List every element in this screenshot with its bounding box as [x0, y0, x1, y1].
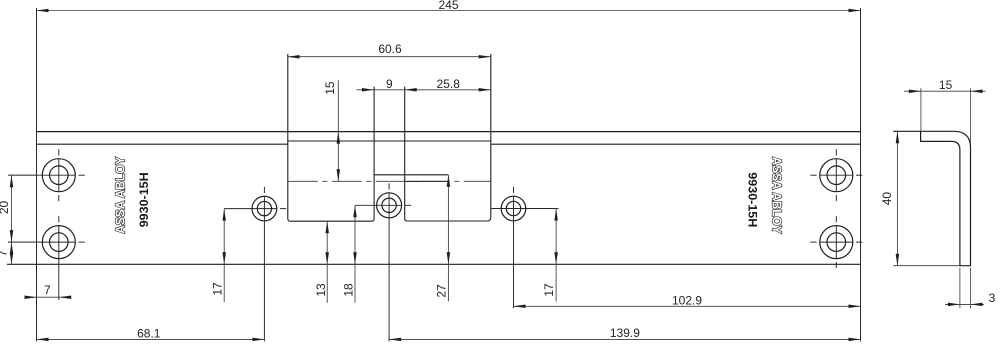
svg-text:40: 40 — [880, 192, 894, 206]
svg-text:9: 9 — [386, 77, 393, 91]
plate face bend line left of latch box — [37, 143, 288, 145]
dimension 17a bottom arrow — [222, 252, 226, 264]
latch box right cutout outline — [405, 54, 491, 221]
dimension 15 side right extension — [970, 88, 972, 145]
plate right edge + extension line — [860, 8, 862, 342]
latch box top inner edge — [288, 140, 491, 142]
dimension 17 (hole5 to bottom) line — [555, 209, 557, 302]
dimension 245 left arrow — [37, 9, 49, 13]
svg-text:68.1: 68.1 — [137, 327, 161, 341]
hole 7 (bottom right) inner circle — [827, 233, 846, 252]
svg-text:18: 18 — [341, 283, 355, 297]
svg-text:9930-15H: 9930-15H — [746, 172, 760, 227]
dimension 7 (bottom horizontal) line — [25, 296, 72, 298]
dimension 15 (latch center) line — [337, 80, 339, 181]
svg-text:139.9: 139.9 — [610, 326, 640, 340]
svg-text:17: 17 — [210, 282, 224, 296]
dimension 102.9 line — [514, 305, 861, 307]
svg-text:9930-15H: 9930-15H — [137, 172, 151, 227]
dimension 7 top arrow — [10, 242, 14, 254]
hole 1 (top left) horizontal centermark — [79, 174, 85, 176]
dimension 3 line — [945, 303, 984, 305]
dimension 13 line — [326, 221, 328, 303]
dimension 20 top arrow — [10, 175, 14, 187]
svg-text:13: 13 — [314, 283, 328, 297]
dimension 17 (hole3 to bottom) line — [223, 209, 225, 303]
latch slot bottom edge — [405, 180, 449, 182]
latch centerline — [288, 180, 491, 182]
dimension 3 left arrow — [948, 303, 960, 307]
dimension 7 bottom arrow — [10, 252, 14, 264]
hole 2 (bottom left) vertical centermark — [58, 216, 60, 222]
dimension 139.9 right arrow — [849, 338, 861, 342]
plate top edge — [37, 131, 861, 133]
svg-text:ASSA ABLOY: ASSA ABLOY — [770, 157, 785, 234]
dimension 7 left arrow — [25, 295, 37, 299]
hole 6 (top right) vertical centermark — [835, 149, 837, 155]
dimension 68.1 line — [37, 338, 265, 340]
dimension 15 side left extension — [920, 88, 922, 131]
hole 7 (bottom right) vertical centermark — [835, 216, 837, 222]
hole 5 (right middle) outer circle — [501, 196, 526, 221]
hole 6 (top right) outer circle — [820, 159, 853, 192]
svg-text:27: 27 — [434, 284, 448, 298]
dimension 68.1 left arrow — [37, 338, 49, 342]
dimension 9 left arrow — [362, 88, 374, 92]
hole 1 (top left) outer circle — [42, 159, 75, 192]
hole 5 (right middle) vertical centermark — [513, 187, 515, 193]
dimension 3 right extension — [970, 268, 972, 309]
dimension 7 right arrow — [59, 295, 71, 299]
hole 6 (top right) inner circle — [827, 166, 846, 185]
dimension 40 line — [896, 131, 898, 265]
dimension 7 (left vertical) line — [11, 242, 13, 264]
plate bottom edge — [7, 263, 861, 265]
dimension 27 top arrow — [447, 175, 451, 187]
dimension 9 / 25.8 line — [357, 89, 491, 91]
side view bottom extension line — [893, 265, 960, 267]
dimension 40 bottom arrow — [896, 254, 900, 266]
dimension 139.9 left arrow — [389, 338, 401, 342]
dimension 20 line — [11, 175, 13, 242]
hole 4 (center) horizontal centermark — [405, 204, 411, 206]
dimension 15 side right arrow — [971, 89, 983, 93]
hole 7 (bottom right) outer circle — [820, 226, 853, 259]
dimension 18 bottom arrow — [353, 252, 357, 264]
hole 3 (left middle) outer circle — [252, 196, 277, 221]
dimension 3 right arrow — [971, 303, 983, 307]
hole 5 (right middle) horizontal centermark — [491, 208, 558, 210]
svg-text:20: 20 — [0, 201, 11, 215]
svg-text:17: 17 — [542, 283, 556, 297]
svg-text:7: 7 — [44, 283, 51, 297]
dimension 3 left extension — [959, 268, 961, 309]
dimension 17b top arrow — [554, 209, 558, 221]
dimension 18 line — [354, 205, 356, 302]
side view L-profile outline — [893, 131, 970, 265]
dimension 27 bottom arrow — [447, 252, 451, 264]
dimension 15 side left arrow — [909, 89, 921, 93]
dimension 68.1 right arrow — [252, 338, 264, 342]
dimension 245 line — [37, 10, 861, 12]
dimension 27 line — [447, 175, 449, 301]
hole 4 (center) inner circle — [382, 198, 396, 212]
svg-text:ASSA ABLOY: ASSA ABLOY — [113, 156, 128, 233]
hole 4 (center) outer circle — [377, 193, 402, 218]
hole 3 (left middle) inner circle — [257, 201, 271, 215]
dimension 40 top arrow — [896, 131, 900, 143]
svg-text:15: 15 — [939, 78, 953, 92]
dimension 15 bottom arrow — [337, 169, 341, 181]
dimension 139.9 line — [389, 338, 860, 340]
svg-text:60.6: 60.6 — [378, 42, 402, 56]
hole 3 (left middle) horizontal centermark — [280, 208, 286, 210]
hole 3 (left middle) vertical centermark — [263, 187, 265, 193]
hole 1 (top left) inner circle — [50, 166, 69, 185]
dimension 245 right arrow — [849, 9, 861, 13]
svg-text:7: 7 — [0, 250, 10, 257]
dimension 60.6 left arrow — [288, 55, 300, 59]
dimension 60.6 line — [288, 56, 491, 58]
dimension 17b bottom arrow — [554, 252, 558, 264]
dimension 13 bottom arrow — [325, 252, 329, 264]
svg-text:15: 15 — [323, 81, 337, 95]
plate left edge + extension line — [36, 8, 38, 342]
hole 4 (center) vertical centermark — [388, 183, 390, 189]
hole 2 (bottom left) inner circle — [50, 233, 69, 252]
dimension 15 (side) line — [904, 90, 986, 92]
latch box left cutout outline — [288, 54, 374, 221]
hole 5 (right middle) inner circle — [506, 201, 520, 215]
svg-text:102.9: 102.9 — [672, 294, 702, 308]
svg-text:25.8: 25.8 — [437, 77, 461, 91]
hole 2 (bottom left) horizontal centermark — [79, 241, 85, 243]
svg-text:3: 3 — [989, 291, 996, 305]
dimension 17a top arrow — [222, 209, 226, 221]
latch slot top edge — [374, 174, 448, 176]
dimension 60.6 right arrow — [479, 55, 491, 59]
hole 7 (bottom right) horizontal centermark — [810, 241, 816, 243]
dimension 13 top arrow — [325, 221, 329, 233]
dimension 20 extension bottom — [8, 241, 38, 243]
dimension 102.9 right arrow — [849, 305, 861, 309]
dimension 25.8 right arrow — [479, 88, 491, 92]
plate face bend line right of latch box — [491, 143, 861, 145]
svg-text:245: 245 — [438, 0, 458, 12]
dimension 18 top arrow — [353, 205, 357, 217]
dimension 25.8 left arrow — [405, 88, 417, 92]
dimension 102.9 left arrow — [514, 305, 526, 309]
hole 1 (top left) vertical centermark — [58, 149, 60, 155]
hole 6 (top right) horizontal centermark — [810, 174, 816, 176]
dimension 20 bottom arrow — [10, 230, 14, 242]
dimension 20 extension top — [8, 174, 38, 176]
hole 2 (bottom left) outer circle — [42, 226, 75, 259]
dimension 15 top arrow — [337, 132, 341, 144]
